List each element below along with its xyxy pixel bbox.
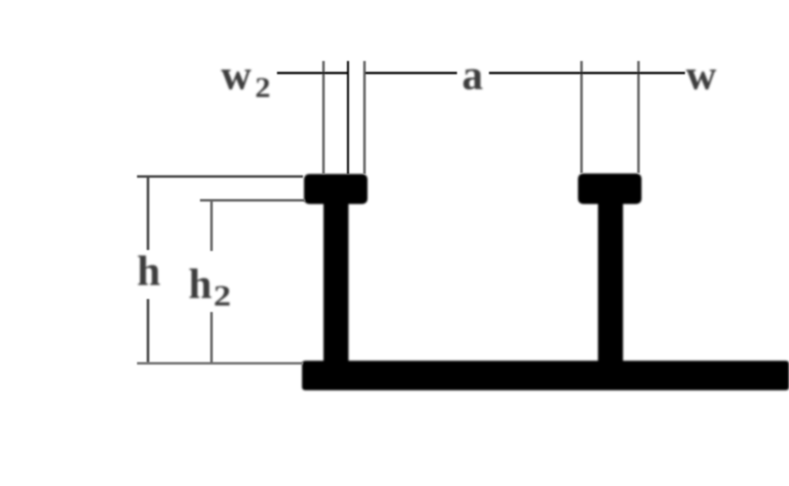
h vertical line lower <box>147 299 150 363</box>
extension line cap-right of left pin <box>363 61 366 174</box>
dimension line a-to-w segment <box>489 72 685 74</box>
svg-text:2: 2 <box>214 280 232 313</box>
svg-text:h: h <box>137 249 160 295</box>
dimension line w2 (label to stem) <box>277 72 349 74</box>
extension line cap-right of right pin <box>637 61 640 173</box>
extension line cap-left of right pin <box>580 61 583 173</box>
svg-text:h: h <box>189 262 212 308</box>
h2 top extension line <box>200 199 305 202</box>
right pin stem <box>598 200 623 365</box>
left pin stem <box>324 200 349 365</box>
h2 vertical line upper <box>210 200 213 251</box>
right pin cap <box>578 174 642 205</box>
h2 vertical line lower <box>210 312 213 363</box>
svg-text:w: w <box>221 53 252 99</box>
base bar <box>302 361 789 390</box>
h top extension line <box>137 175 303 178</box>
extension line stem-right of left pin <box>347 61 349 174</box>
bottom extension line at base level <box>137 362 303 365</box>
svg-text:2: 2 <box>255 72 271 104</box>
dimension line a left segment <box>365 72 457 74</box>
left pin cap <box>304 174 368 204</box>
extension line stem-left of left pin <box>322 61 325 174</box>
h vertical line upper <box>147 177 150 251</box>
svg-text:a: a <box>462 53 483 99</box>
svg-text:w: w <box>686 53 717 99</box>
